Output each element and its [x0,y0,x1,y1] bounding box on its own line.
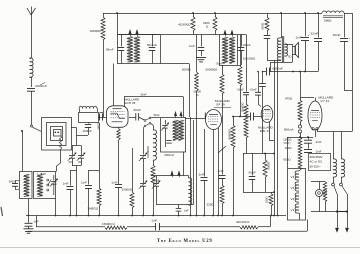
svg-text:·1mF: ·1mF [151,219,158,223]
valve V1 ECH35 frequency changer [107,106,129,128]
svg-text:W: W [43,172,46,176]
valve V3 EBL31 output [261,106,273,123]
resistor R12 250 ohm [271,192,273,194]
switch S1 aerial [31,125,33,127]
svg-text:·0005mF: ·0005mF [272,67,284,71]
svg-text:100mF: 100mF [83,129,93,133]
svg-text:250Ω: 250Ω [265,197,269,204]
IFT1 primary winding [127,37,132,63]
oscillator coil L2 horizontal [79,106,97,108]
svg-text:220Ω: 220Ω [207,203,215,207]
svg-text:Ω: Ω [206,25,209,29]
capacitor C18 1mF smoothing [305,13,307,37]
capacitor C33 ·01mF diode [255,91,261,93]
svg-text:1mF: 1mF [296,36,302,40]
svg-text:5000Ω: 5000Ω [267,162,271,170]
resistor R4 33000 ohm [130,192,134,208]
resistor R17 150000 ohm [105,226,127,229]
svg-text:16mF: 16mF [333,33,341,37]
mains node bus [317,131,352,133]
IFT1 screen box [117,34,160,36]
capacitor C32 ·01mF [243,92,249,94]
wire HT to rectifier chain [300,97,314,99]
svg-text:1MEGΩ: 1MEGΩ [88,207,100,211]
capacitor C12 1mF [222,150,224,175]
svg-text:The Ekco Model U29: The Ekco Model U29 [157,239,212,244]
resistor R20 tracking [151,165,155,185]
wire switch to IFT2 [151,116,160,119]
IFT1 secondary winding [134,37,139,63]
mains transformer box [288,169,306,221]
screen grid bus [117,34,246,36]
capacitor C31 padding [178,205,180,209]
mains choke Ch2 [341,132,343,160]
coil L1 aerial series coil [30,58,34,77]
capacitor C22 1mF [308,143,310,149]
earth symbol [24,228,34,230]
oscillator coil L3 [153,125,155,130]
oscillator coil L5 [188,176,190,179]
speaker [285,44,293,46]
svg-text:5000Ω: 5000Ω [182,68,191,72]
node aerial tap [21,130,23,132]
svg-text:500000Ω: 500000Ω [206,68,219,72]
valve V4 CY31 rectifier [308,101,322,130]
wire diode feed [257,71,259,73]
svg-text:200-250V: 200-250V [310,155,323,159]
trimmer C35 padder [140,183,146,185]
trimmer C27 padder adjust [72,146,74,156]
resistor R11 bias 5000 ohm [264,153,266,155]
svg-text:33000Ω: 33000Ω [122,188,133,192]
wire reservoir link [344,90,352,92]
capacitor C11 1mF [201,177,208,179]
svg-text:1mF: 1mF [81,181,87,185]
tuner coil spring [59,136,61,150]
page edge artifact left [1,207,3,216]
svg-text:EBL 31: EBL 31 [260,129,270,133]
svg-text:100Ω: 100Ω [285,146,293,150]
wire V1 osc grid down [99,123,101,188]
wire bus to IFT1 [117,13,119,35]
svg-text:+: + [308,33,310,37]
aerial coil LW [37,174,42,196]
wire IFT2 to V2 grid [185,118,205,120]
switch S2 IF changeover [144,120,146,122]
feedback wire [263,71,267,73]
antenna [31,15,33,58]
svg-text:32mF: 32mF [311,32,319,36]
svg-text:·1mF: ·1mF [33,219,40,223]
svg-text:50mF: 50mF [249,171,257,175]
svg-text:410000Ω: 410000Ω [178,23,191,27]
svg-text:580Ω: 580Ω [324,19,332,23]
wire tuner box to trimmer bank [71,127,77,129]
anode feed row [267,60,281,62]
capacitor C16 series ·0005mF [266,68,268,76]
IFT3 winding b [229,37,234,63]
svg-text:VOLT): VOLT) [284,142,291,145]
capacitor C23 ·1mF [155,223,157,230]
wire coil box to earth cap [28,199,30,223]
wire V2 suppressor [218,128,220,216]
wire cap to switch S2 [139,117,145,120]
wire antenna to C1 [31,77,33,87]
heater winding V4 [295,171,299,180]
svg-text:EF 39: EF 39 [217,103,226,107]
capacitor C26 earth ·1mF [25,222,33,224]
potentiometer VR1 volume [222,143,224,150]
wire V2 grid rail [204,129,206,177]
svg-text:50mF: 50mF [154,114,161,117]
svg-text:·01mF: ·01mF [237,89,245,92]
resistor R8 360000 ohm grid leak [232,116,234,118]
capacitor C30 1mF osc [85,185,92,187]
wire R1 down to mixer grid [103,40,105,112]
aerial coil MW [24,174,29,196]
IFT2 winding a [173,120,178,140]
resistor R21 screen 5000 ohm [195,72,199,91]
svg-text:3Ω: 3Ω [288,55,291,59]
capacitor C21 4mF [308,137,310,140]
svg-text:150000 Ω: 150000 Ω [102,222,115,226]
svg-text:50000Ω: 50000Ω [241,103,245,112]
aerial coil screen box 1 [20,172,33,199]
wire padder down [88,127,90,135]
wire V1 anode to IF coupling cap [129,117,136,119]
resistor R18 400000 ohm [240,226,258,229]
mains switch pole 2 [341,177,343,183]
wire unit box to grid cap [98,117,107,119]
wire V1 to R4 [132,148,134,192]
capacitor C6 ·1mF [115,184,122,186]
resistor R13 330 ohm tone [267,13,269,17]
svg-text:·1mF: ·1mF [111,181,118,185]
capacitor C9 ·1mF [201,35,203,47]
wire tuner box down to coil assembly [60,150,62,164]
IFT2 screen box [161,118,186,153]
osc grid node bracket [89,170,100,172]
svg-text:800mA: 800mA [284,128,294,132]
svg-text:V3: V3 [291,186,295,190]
resistor R10 50000 ohm diode load [246,35,248,92]
resistor R1 30000 ohm [103,13,105,17]
smoothing choke L4 580 ohm [322,11,344,13]
capacitor C1 .0002mF [27,88,35,90]
capacitor C20 16mF reservoir [344,13,346,38]
wire C17 leg [262,71,264,73]
wire left leg [243,154,245,193]
capacitor C10 100mmF [241,35,243,47]
mains rating label [309,154,331,171]
svg-text:51000: 51000 [194,90,202,94]
output transformer T1 [281,13,283,38]
svg-text:100.000Ω: 100.000Ω [243,57,255,61]
ground IF [196,57,206,59]
svg-text:·05mF: ·05mF [105,48,114,52]
svg-text:V1: V1 [291,208,295,212]
svg-text:1mF: 1mF [63,182,69,186]
wire V3 cathode jog [269,122,271,140]
svg-text:50-100~: 50-100~ [310,164,321,168]
wire V3 anode rail [274,60,276,216]
svg-text:ECH 35: ECH 35 [125,101,136,105]
scale lamp [319,182,321,190]
mains pin 2 [345,228,348,232]
svg-text:·0005: ·0005 [8,179,15,183]
trimmer C34 osc unit [156,176,158,184]
switch S3 oscillator changeover [144,125,146,127]
HT bus top [103,13,320,15]
heater winding V2 [295,193,299,202]
svg-text:V2: V2 [291,197,295,201]
svg-text:655Ω: 655Ω [284,158,292,162]
resistor R2 V1 cathode [118,127,120,129]
svg-text:V4: V4 [291,175,295,179]
capacitor C2 padder 100mmF [88,122,90,124]
wire V1 triode anode to osc coupling [124,96,183,98]
wire IFT1 bottom to IFT2 [160,63,189,65]
oscillator coil unit box [79,113,99,123]
svg-text:970Ω: 970Ω [285,97,293,101]
wire feedback to smoothing node [269,71,318,73]
rail screen to grid [196,91,198,118]
IFT2 internal cap [166,140,172,142]
svg-text:50mF: 50mF [134,108,142,112]
svg-text:·01mF: ·01mF [250,89,258,92]
resistor R19 500000 ohm volume [222,65,224,74]
svg-text:·0001mF: ·0001mF [164,153,175,157]
svg-text:50mF: 50mF [141,94,148,97]
svg-text:400.000 Ω: 400.000 Ω [236,220,250,224]
wire coupling to V3 grid [233,116,251,118]
waveband switch contacts [47,179,49,181]
heater winding V1 [295,204,299,213]
trimmer C8 oscillator [143,128,145,154]
osc unit bottom rail [156,204,194,206]
capacitor C28 1mF [70,170,72,186]
line cord resistor R16 [311,181,325,183]
svg-text:50mmF: 50mmF [147,43,157,47]
chassis bus [26,215,286,217]
cathode network bottom rail [243,192,274,194]
voltage link bar [337,211,347,213]
wire speaker return [292,44,294,46]
IFT2 winding b [178,120,183,140]
svg-text:1mF: 1mF [316,150,322,154]
wire aerial to coil box [22,131,24,172]
capacitor C15 tone [267,31,269,35]
wire coil box to chassis [55,199,57,216]
capacitor C14 50mF cathode [252,154,254,176]
IFT3 winding a [222,37,227,63]
AVC resistor R9 100000 ohm [240,35,242,67]
heater winding V3 [295,182,299,191]
valve V2 EF39 IF amplifier [206,110,222,130]
wire C1 to band switch [31,91,33,125]
capacitor C4 IFT1 left [121,35,123,47]
mains choke Ch1 [333,132,335,160]
IFT2 trimmer [165,120,167,125]
capacitor C13 coupling [250,113,252,121]
svg-text:330Ω: 330Ω [261,22,265,30]
heater chain bus [287,137,313,139]
resistor R3 1 Meg [97,188,101,206]
rectifier cathode pins [312,128,314,130]
capacitor C7 50mmF coupling [135,113,137,121]
wire to switch [311,211,337,213]
page edge bottom [0,247,360,249]
svg-text:360000Ω: 360000Ω [228,129,232,140]
svg-text:30000Ω: 30000Ω [90,29,101,33]
wire IFT1 secondary to V1 grid [113,64,115,108]
svg-text:50mF: 50mF [97,123,101,131]
resistor R5 410000 ohm [193,13,195,17]
decoupling sub bus [36,216,38,227]
mains pin 1 [335,228,338,232]
svg-text:4mF: 4mF [316,140,322,144]
aerial coil screen box 2 [34,172,56,199]
trimmer bank return [72,165,81,167]
wire IFT2 right rails [190,117,192,216]
resistor R7 220 ohm [222,178,224,185]
wire V2 cathode [213,130,215,216]
svg-text:CY 31: CY 31 [321,99,330,103]
mains switch pole 1 [333,177,335,183]
wire chain left down to box [287,137,289,168]
capacitor C5 IFT1 right 50mmF [152,35,154,47]
capacitor C19 32mF electrolytic [318,13,320,38]
IFT3 screen box [219,35,221,66]
capacitor V2 grid series [204,113,206,119]
oscillator unit top bracket [151,175,189,177]
svg-text:·001: ·001 [78,161,83,164]
earth return line [28,230,307,232]
wire V1 cathode down [118,140,120,184]
svg-text:·1mF: ·1mF [188,44,195,48]
wire V3 screen rail [277,60,279,216]
capacitor C17 speaker shunt [259,83,266,85]
cathode network top rail [243,153,274,155]
resistor R6 3300 ohm [215,13,217,17]
fuse 800mA [298,125,301,128]
HT rail right [352,13,354,132]
tuner switch unit [54,130,62,137]
svg-text:·1mF: ·1mF [183,210,189,213]
capacitor C3 grid 50mmF [99,114,101,121]
wire R9 down [240,86,242,117]
svg-text:·05mF: ·05mF [216,63,223,65]
trimmer C29 osc adjust [81,146,83,156]
trimmer C25 aerial [53,175,55,181]
svg-text:100000Ω: 100000Ω [146,145,150,158]
svg-text:+: + [349,36,351,40]
rail screen feed [196,35,198,73]
wire cap to V3 [254,116,262,118]
tuner nested screen box [42,118,72,151]
svg-text:AC or DC: AC or DC [310,160,324,164]
svg-text:·1mF: ·1mF [217,169,224,173]
trimmer bank feed [76,135,78,146]
svg-text:·1mF: ·1mF [198,173,205,177]
